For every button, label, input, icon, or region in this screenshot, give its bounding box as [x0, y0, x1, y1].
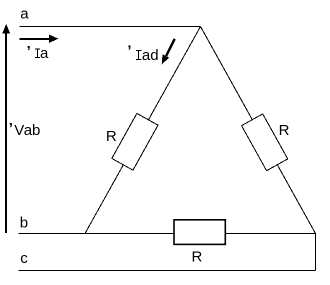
label 'Ia [27, 43, 49, 62]
wire: right vertical drop b to c [315, 234, 317, 271]
wire: right edge a to c-node corner [201, 27, 316, 234]
current arrow Iad [162, 39, 175, 65]
resistor R (right, ac branch) [242, 114, 288, 171]
svg-text:ad: ad [142, 47, 159, 64]
svg-text:c: c [20, 250, 28, 267]
wire: phase b line [19, 233, 316, 235]
label 'Vab [9, 120, 41, 139]
wire: phase a line to apex [20, 26, 201, 28]
svg-text:’: ’ [127, 42, 131, 59]
svg-text:’: ’ [27, 43, 31, 60]
resistor R (left, ab branch) [112, 113, 158, 170]
svg-text:R: R [279, 122, 290, 139]
resistor R (bottom, bc branch) [174, 220, 225, 245]
svg-text:’: ’ [9, 120, 13, 137]
svg-text:b: b [20, 215, 28, 232]
wire: phase c line [19, 270, 316, 272]
svg-text:ab: ab [24, 122, 41, 139]
label 'Iad [127, 42, 158, 64]
svg-text:R: R [106, 128, 117, 145]
current arrow Ia [19, 35, 58, 43]
svg-text:R: R [192, 249, 203, 266]
voltage arrow Vab [2, 24, 10, 233]
wire: left edge a to b [85, 27, 201, 234]
svg-text:a: a [40, 45, 49, 62]
svg-text:a: a [20, 6, 29, 23]
